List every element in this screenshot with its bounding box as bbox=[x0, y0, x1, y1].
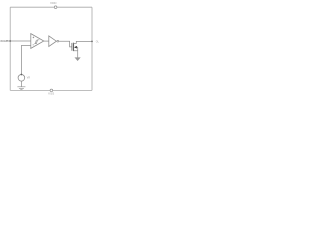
wire: input VRAMP to comparator bbox=[7, 40, 31, 42]
svg-text:VSS: VSS bbox=[48, 92, 54, 96]
inversion bubble on U2 output bbox=[57, 40, 59, 42]
hysteresis glyph inside U1 bbox=[34, 40, 39, 44]
wire: M1 source down bbox=[74, 51, 78, 58]
svg-text:OL: OL bbox=[96, 41, 100, 43]
wire: V1 bottom to ground bbox=[20, 81, 22, 87]
svg-text:VR: VR bbox=[27, 77, 31, 79]
transistor M1 gate bar bbox=[71, 43, 73, 51]
wire: U2 output to M1 gate bbox=[59, 41, 72, 47]
power pin VDD (circle on top rail) bbox=[54, 6, 57, 9]
node: output junction dot bbox=[91, 41, 93, 43]
wire: ramp source to U1 inverting input bbox=[21, 46, 30, 75]
wire: VDD rail (top border) bbox=[10, 6, 92, 8]
node: dot at V1 top terminal bbox=[21, 74, 23, 76]
pin mark + (U1 non-inverting input) bbox=[33, 37, 35, 39]
source V1 (ramp generator circle) bbox=[18, 75, 25, 82]
op-amp U2 (output inverter/driver) bbox=[49, 36, 57, 47]
power pin VSS (circle on bottom rail) bbox=[50, 89, 53, 92]
wire: VSS rail (bottom border) bbox=[10, 89, 92, 91]
svg-text:VRAMP: VRAMP bbox=[0, 39, 8, 43]
wire: right border bbox=[91, 7, 93, 90]
ground (arrow style) under M1 source bbox=[75, 57, 81, 61]
wire: M1 drain to output node bbox=[74, 41, 93, 43]
transistor M1 body arrow bbox=[74, 46, 77, 49]
op-amp U1 (comparator with hysteresis) bbox=[31, 34, 44, 49]
wire: U1 output to U2 input bbox=[44, 40, 49, 42]
node: input pin junction dot bbox=[9, 40, 11, 42]
ground (3-bar) under V1 bbox=[17, 87, 25, 90]
pin mark - (U1 inverting input) bbox=[33, 44, 35, 46]
wire: left border bbox=[9, 7, 11, 90]
transistor M1 channel bar bbox=[73, 43, 75, 51]
svg-text:VDD: VDD bbox=[50, 1, 57, 5]
